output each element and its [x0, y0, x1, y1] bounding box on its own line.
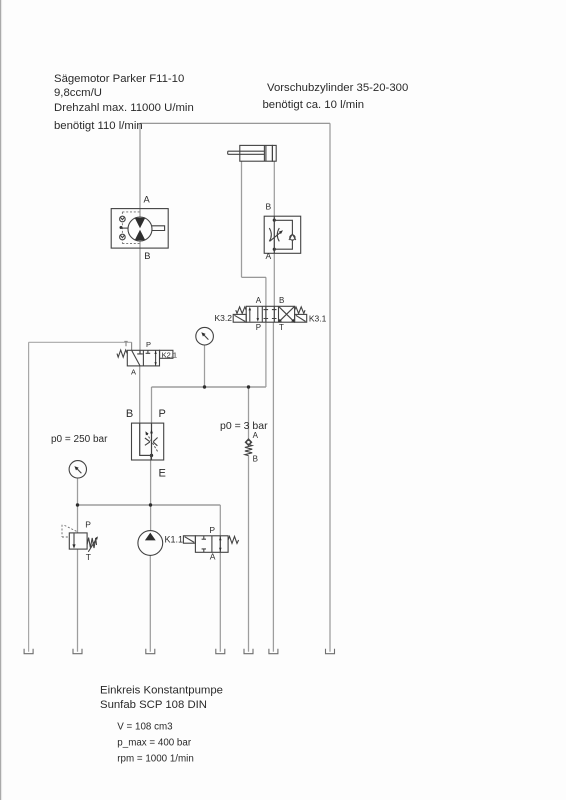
svg-text:Sägemotor Parker F11-10: Sägemotor Parker F11-10: [54, 73, 184, 85]
svg-text:9,8ccm/U: 9,8ccm/U: [54, 87, 102, 99]
svg-text:Einkreis Konstantpumpe: Einkreis Konstantpumpe: [100, 685, 223, 697]
svg-text:p0 = 3 bar: p0 = 3 bar: [220, 420, 268, 432]
svg-text:A: A: [266, 251, 272, 261]
svg-text:A: A: [253, 431, 259, 440]
svg-text:rpm = 1000 1/min: rpm = 1000 1/min: [117, 754, 194, 765]
svg-text:T: T: [86, 552, 91, 562]
svg-text:A: A: [256, 296, 262, 305]
svg-text:Vorschubzylinder 35-20-300: Vorschubzylinder 35-20-300: [267, 82, 408, 94]
svg-text:Drehzahl max. 11000 U/min: Drehzahl max. 11000 U/min: [54, 102, 194, 114]
svg-text:P: P: [159, 408, 166, 420]
svg-text:K3.2: K3.2: [215, 313, 233, 323]
svg-text:A: A: [131, 368, 136, 377]
svg-text:B: B: [279, 296, 284, 305]
svg-text:P: P: [256, 323, 261, 332]
svg-text:K1.1: K1.1: [165, 535, 184, 545]
svg-text:B: B: [144, 251, 150, 261]
svg-text:B: B: [126, 408, 133, 420]
svg-text:T: T: [279, 323, 284, 332]
svg-text:P: P: [85, 520, 91, 530]
svg-text:A: A: [144, 194, 151, 204]
svg-text:B: B: [253, 455, 258, 464]
svg-text:B: B: [266, 202, 272, 212]
svg-text:benötigt ca. 10 l/min: benötigt ca. 10 l/min: [263, 99, 365, 111]
svg-text:p_max = 400 bar: p_max = 400 bar: [117, 738, 192, 749]
svg-text:P: P: [146, 340, 151, 349]
svg-text:E: E: [159, 468, 166, 480]
svg-text:p0 = 250 bar: p0 = 250 bar: [51, 434, 108, 445]
svg-text:benötigt 110 l/min: benötigt 110 l/min: [54, 120, 143, 132]
svg-text:V = 108 cm3: V = 108 cm3: [117, 722, 173, 733]
svg-text:A: A: [210, 552, 216, 562]
svg-text:K2.1: K2.1: [162, 350, 177, 359]
svg-text:P: P: [209, 525, 215, 535]
svg-text:Sunfab SCP 108 DIN: Sunfab SCP 108 DIN: [100, 699, 207, 711]
svg-text:K3.1: K3.1: [309, 313, 327, 323]
